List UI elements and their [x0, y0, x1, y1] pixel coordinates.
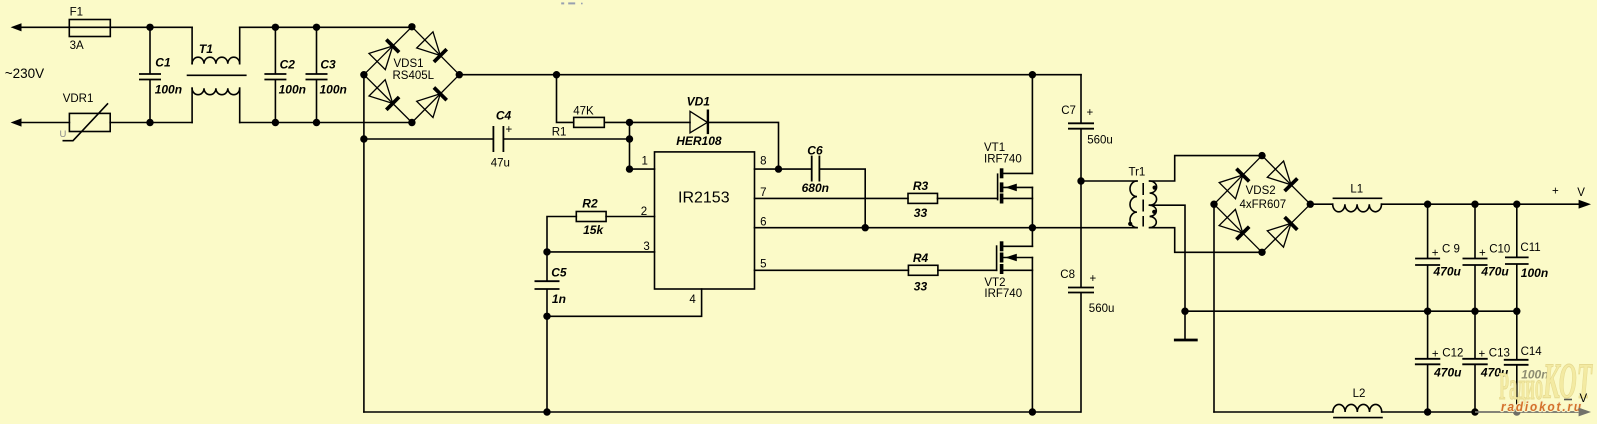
- wire VDS2 plus to L1: [1310, 203, 1332, 205]
- node C13 top: [1471, 308, 1478, 315]
- wire VD1 cathode to pin8: [709, 122, 779, 169]
- svg-text:VD1: VD1: [687, 95, 711, 109]
- node VDS1 top: [408, 23, 415, 30]
- wire C5 bottom to ground rail: [546, 290, 548, 412]
- svg-text:680n: 680n: [802, 181, 829, 195]
- resistor R1 47K: [552, 106, 605, 139]
- tiny top specks: [561, 2, 582, 4]
- capacitor C5 1n: [535, 266, 567, 307]
- svg-text:470u: 470u: [1480, 264, 1509, 278]
- wire R4 to VT2 gate: [938, 269, 997, 271]
- svg-text:100n: 100n: [279, 82, 306, 96]
- wire minus out rail right: [1382, 411, 1475, 413]
- svg-text:C5: C5: [551, 266, 567, 280]
- svg-text:C10: C10: [1489, 243, 1510, 255]
- svg-text:IR2153: IR2153: [678, 189, 730, 206]
- node secondary1 phase dot: [1153, 186, 1157, 190]
- node C12 bottom: [1424, 408, 1431, 415]
- wire mid out rail: [1185, 310, 1517, 312]
- svg-text:560u: 560u: [1089, 303, 1115, 315]
- node C1 bottom: [146, 119, 153, 126]
- svg-text:C2: C2: [280, 57, 296, 71]
- wire minus out rail left: [1214, 411, 1333, 413]
- input arrow top (line L): [11, 23, 22, 31]
- node R1 branch: [553, 71, 560, 78]
- svg-text:+: +: [1432, 247, 1439, 259]
- node R1/VD1: [626, 119, 633, 126]
- svg-text:VDS1: VDS1: [394, 58, 424, 70]
- svg-text:C6: C6: [807, 143, 823, 157]
- diode VDS2 top-right: [1262, 156, 1310, 205]
- svg-text:~230V: ~230V: [5, 66, 44, 81]
- svg-text:100n: 100n: [1521, 266, 1548, 280]
- svg-text:6: 6: [760, 217, 766, 229]
- node C3 top: [313, 24, 320, 31]
- svg-text:8: 8: [760, 156, 766, 168]
- svg-text:15k: 15k: [583, 223, 604, 237]
- capacitor C8 560u: [1060, 269, 1114, 315]
- diode VDS1 top-right: [412, 27, 459, 75]
- wire VDS2 minus vertical: [1213, 204, 1215, 412]
- svg-text:R4: R4: [913, 251, 929, 265]
- pin 8: [755, 156, 779, 170]
- choke T1: [188, 27, 246, 122]
- svg-text:L2: L2: [1353, 388, 1366, 400]
- resistor R2 15k: [576, 197, 606, 238]
- wire top AC rail right: [240, 26, 412, 28]
- wire secondary top lead: [1150, 156, 1262, 181]
- node pin8: [775, 165, 782, 172]
- svg-text:R1: R1: [552, 126, 567, 138]
- svg-text:33: 33: [914, 280, 928, 294]
- svg-text:+: +: [1432, 348, 1439, 360]
- node C10 top: [1471, 201, 1478, 208]
- svg-text:C 9: C 9: [1442, 243, 1460, 255]
- wire vertical x629: [629, 122, 631, 169]
- node C14 top: [1513, 308, 1520, 315]
- svg-text:47K: 47K: [573, 106, 594, 118]
- node pin4/C5: [543, 313, 550, 320]
- pin 2: [606, 206, 654, 218]
- svg-text:C11: C11: [1520, 242, 1540, 254]
- svg-text:3A: 3A: [70, 40, 84, 52]
- capacitor C2: [264, 27, 306, 122]
- svg-text:C13: C13: [1489, 347, 1510, 359]
- diode VDS1 left-bottom: [364, 75, 412, 123]
- svg-text:1: 1: [642, 156, 648, 168]
- svg-text:4xFR607: 4xFR607: [1240, 199, 1287, 211]
- svg-text:1n: 1n: [552, 292, 566, 306]
- node ground rail VT2 source: [1029, 408, 1036, 415]
- wire bottom ground rail: [364, 411, 1080, 413]
- node C12 top: [1424, 308, 1431, 315]
- wire C4 right lead: [504, 138, 629, 140]
- node VDS1 left: [360, 71, 367, 78]
- svg-text:VDS2: VDS2: [1246, 185, 1276, 197]
- svg-text:100n: 100n: [155, 82, 182, 96]
- wire DC plus rail y75: [459, 74, 1081, 76]
- svg-text:4: 4: [689, 294, 696, 306]
- wire R1 to node: [604, 121, 629, 123]
- svg-text:RS405L: RS405L: [393, 70, 435, 82]
- node cap divider / primary: [1077, 177, 1084, 184]
- svg-text:T1: T1: [199, 42, 213, 56]
- diode VD1 HER108: [676, 95, 722, 148]
- diode VDS2 left-bottom: [1214, 204, 1262, 252]
- diode VDS1 left-top: [364, 27, 412, 75]
- svg-text:47u: 47u: [491, 157, 510, 169]
- node VDS1 bottom: [408, 119, 415, 126]
- node pin1: [626, 165, 633, 172]
- wire primary top lead: [1081, 180, 1137, 182]
- svg-text:C4: C4: [496, 109, 512, 123]
- wire C8 to ground rail: [1080, 293, 1082, 412]
- node pin3/C5: [543, 248, 550, 255]
- svg-text:R3: R3: [913, 179, 929, 193]
- node VT1 drain branch: [1029, 71, 1036, 78]
- svg-text:IRF740: IRF740: [984, 154, 1022, 166]
- svg-text:F1: F1: [70, 7, 83, 19]
- wire bottom AC rail right: [240, 122, 412, 124]
- node C2 top: [272, 24, 279, 31]
- svg-text:IRF740: IRF740: [984, 288, 1022, 300]
- output arrow plus V: [1552, 185, 1591, 208]
- pin 4: [547, 289, 702, 316]
- svg-text:+: +: [1552, 185, 1559, 197]
- wire VD1 anode lead: [630, 121, 691, 123]
- node VT1 source / mid rail: [1029, 224, 1036, 231]
- capacitor C3: [306, 27, 347, 122]
- pin 1: [630, 156, 655, 170]
- svg-text:33: 33: [914, 206, 928, 220]
- inductor L1: [1333, 184, 1382, 212]
- transformer Tr1: [1129, 166, 1157, 227]
- wire plus out rail: [1382, 203, 1581, 205]
- wire plus rail corner down to C7: [1080, 75, 1082, 123]
- svg-text:C3: C3: [320, 57, 336, 71]
- capacitor C1: [139, 27, 182, 122]
- diode VDS2 left-top: [1214, 156, 1262, 205]
- wire VT2 source to ground rail: [1031, 258, 1033, 413]
- svg-text:U: U: [60, 129, 67, 140]
- capacitor C11 100n: [1505, 204, 1548, 311]
- node C2 bottom: [272, 119, 279, 126]
- svg-text:C12: C12: [1442, 347, 1463, 359]
- svg-text:C8: C8: [1060, 269, 1075, 281]
- wire bottom AC rail left: [21, 122, 69, 124]
- node C9 top: [1424, 201, 1431, 208]
- node C3 bottom: [313, 119, 320, 126]
- transistor Q1 VT1 IRF740: [984, 142, 1032, 203]
- wire VT1 drain to plus rail: [1031, 75, 1033, 174]
- wire bottom AC rail mid: [110, 122, 192, 124]
- svg-text:560u: 560u: [1087, 135, 1113, 147]
- wire C7 to C8: [1080, 130, 1082, 287]
- svg-text:V: V: [1577, 187, 1585, 199]
- svg-text:R2: R2: [582, 197, 598, 211]
- wire C4 left lead: [364, 138, 493, 140]
- op-amp U1 IR2153 box: [655, 152, 755, 289]
- input arrow bottom (line N): [11, 118, 22, 126]
- svg-text:VT1: VT1: [984, 142, 1005, 154]
- watermark RadioKOT logo big: [1499, 354, 1593, 410]
- pin 7: [755, 187, 909, 199]
- svg-text:+: +: [1479, 348, 1486, 360]
- varistor VDR1: [60, 93, 111, 141]
- inductor L2: [1333, 388, 1382, 418]
- svg-text:+: +: [1090, 273, 1097, 285]
- bridge VDS2 labels: [1240, 185, 1287, 211]
- svg-text:Tr1: Tr1: [1129, 166, 1146, 178]
- capacitor C10 470u: [1463, 204, 1511, 311]
- node secondary2 phase dot: [1152, 210, 1156, 214]
- wire R3 to VT1 gate: [938, 197, 998, 199]
- resistor R3 33: [908, 179, 938, 220]
- svg-text:C14: C14: [1521, 346, 1543, 358]
- capacitor C14 100n: [1504, 311, 1549, 412]
- svg-text:2: 2: [641, 206, 647, 218]
- wire VT1 source to mid rail: [1031, 187, 1033, 227]
- node primary phase dot: [1128, 222, 1132, 226]
- node ground rail C5 branch: [543, 408, 550, 415]
- capacitor C7 560u: [1061, 105, 1113, 147]
- svg-text:470u: 470u: [1433, 366, 1462, 380]
- node C6/mid rail: [862, 224, 869, 231]
- ground: [1174, 311, 1198, 340]
- capacitor C12 470u: [1415, 311, 1464, 412]
- capacitor C4: [491, 109, 513, 170]
- wire DC minus vertical: [363, 75, 365, 412]
- node center tap / mid out rail: [1181, 308, 1188, 315]
- node VDS2 top: [1258, 152, 1265, 159]
- node C14 bottom: [1513, 408, 1521, 416]
- diode VDS2 bottom-right: [1262, 204, 1310, 252]
- node VDS1 right: [456, 71, 463, 78]
- fuse F1: [69, 7, 110, 53]
- wire R2 left to C5 vertical: [547, 217, 576, 281]
- pin 3: [547, 241, 655, 253]
- node C13 bottom: [1471, 408, 1478, 415]
- wire minus out rail gray segment: [1475, 411, 1579, 413]
- node C1 top: [146, 24, 153, 31]
- wire R1 branch vertical: [557, 75, 574, 123]
- wire secondary bottom lead: [1150, 228, 1262, 253]
- wire pin8 to C6: [779, 168, 811, 170]
- bridge VDS1 labels: [393, 58, 435, 82]
- wire center tap: [1150, 205, 1185, 311]
- pin 5: [755, 259, 909, 271]
- wire top AC rail left: [21, 26, 192, 28]
- svg-text:470u: 470u: [1433, 264, 1462, 278]
- svg-text:V: V: [1580, 393, 1588, 405]
- pin 6: [755, 217, 1138, 229]
- transistor Q2 VT2 IRF740: [984, 241, 1032, 300]
- capacitor C9 470u: [1415, 204, 1461, 311]
- svg-text:L1: L1: [1350, 184, 1363, 196]
- svg-text:HER108: HER108: [676, 134, 722, 148]
- svg-text:VDR1: VDR1: [63, 93, 94, 105]
- svg-text:C7: C7: [1061, 105, 1076, 117]
- svg-text:3: 3: [643, 241, 649, 253]
- svg-text:100n: 100n: [320, 82, 347, 96]
- output arrow minus V: [1564, 393, 1591, 417]
- svg-text:5: 5: [760, 259, 766, 271]
- capacitor C6 680n: [802, 143, 829, 195]
- node VDS2 bottom: [1258, 249, 1265, 256]
- node VDS2 left: [1210, 201, 1217, 208]
- svg-text:C1: C1: [155, 56, 171, 70]
- svg-text:+: +: [1479, 247, 1486, 259]
- wire C6 to mid rail: [820, 169, 865, 228]
- resistor R4 33: [908, 251, 938, 294]
- svg-text:+: +: [506, 124, 513, 136]
- diode VDS1 bottom-right: [412, 75, 459, 123]
- wire VT2 drain to mid rail: [1031, 228, 1033, 247]
- node C4 branch: [360, 135, 367, 142]
- node C4/x629: [626, 135, 633, 142]
- node C11 top: [1513, 201, 1520, 208]
- svg-text:7: 7: [760, 187, 766, 199]
- node VDS2 right: [1307, 201, 1314, 208]
- capacitor C13 470u: [1462, 311, 1510, 412]
- svg-text:radiokot.ru: radiokot.ru: [1501, 400, 1583, 414]
- svg-text:+: +: [1087, 107, 1094, 119]
